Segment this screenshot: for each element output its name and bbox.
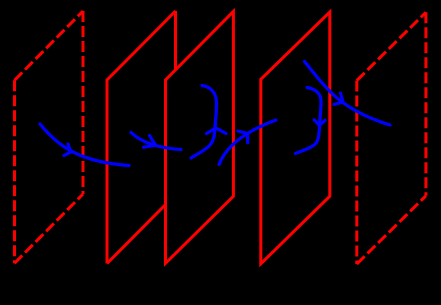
path D arrowhead: [238, 131, 248, 143]
path C curve: [191, 86, 217, 159]
screen S2 solid plane: [166, 11, 234, 263]
screen S1 solid plane (partially hidden by S2): [107, 11, 176, 264]
wire S4 right edge: [424, 12, 427, 196]
wire S1 right edge (clipped): [174, 11, 177, 70]
path B arrowhead: [144, 136, 156, 148]
screen S0 dashed left plane: [15, 11, 84, 263]
wire S0 left edge: [13, 80, 16, 263]
path F arrowhead: [334, 93, 343, 105]
path E arrowhead: [314, 120, 325, 126]
wire S4 bottom edge: [357, 196, 426, 264]
path A curve: [40, 124, 129, 166]
screen S3 solid plane: [261, 12, 330, 264]
wire S0 bottom edge: [15, 194, 84, 263]
wire S1 bottom edge (clipped): [107, 205, 166, 264]
path C arrowhead: [207, 128, 227, 134]
wire S0 top edge: [15, 11, 84, 80]
path B curve: [131, 133, 181, 150]
wire S0 right edge: [82, 11, 85, 194]
wire S1 left+top edges: [107, 11, 176, 264]
path A arrowhead: [64, 144, 71, 156]
wire S4 top edge: [357, 12, 426, 80]
screen S4 dashed right plane: [357, 12, 426, 264]
path E curve: [296, 88, 322, 154]
path D curve: [219, 120, 276, 165]
wire S4 left edge: [355, 81, 358, 265]
path F curve: [305, 62, 391, 126]
